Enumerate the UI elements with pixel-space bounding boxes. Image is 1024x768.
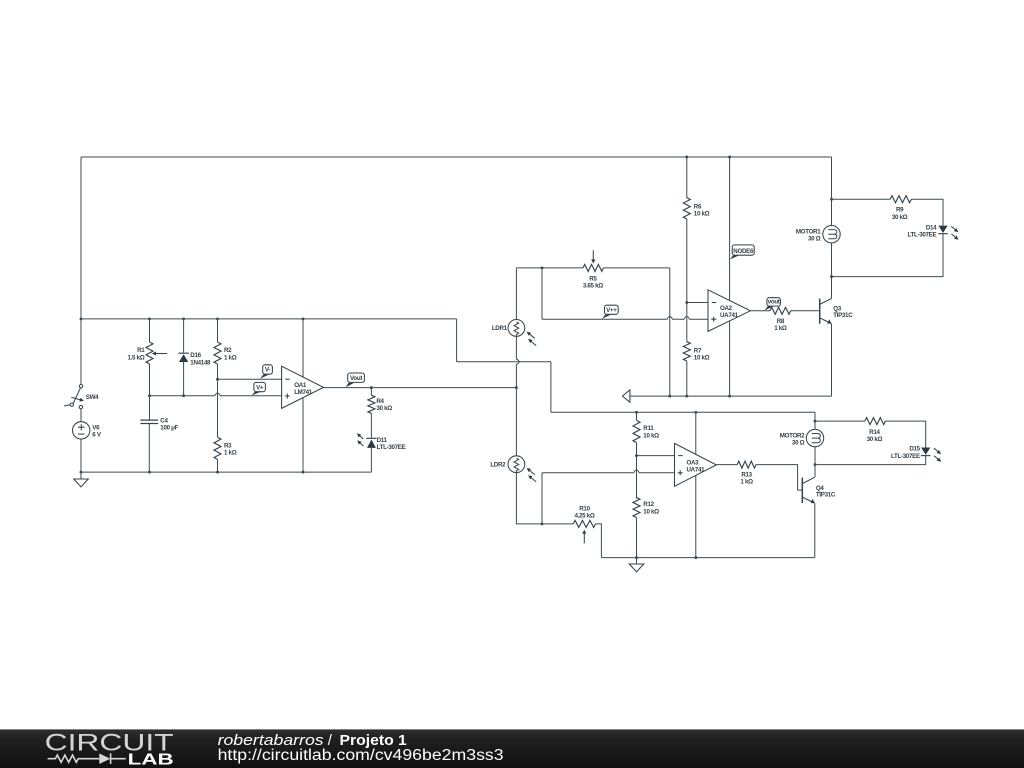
svg-text:OA3: OA3 <box>687 459 700 466</box>
wire left rail upper (loop to bus) <box>80 157 82 319</box>
wire R12 top lead <box>636 456 638 499</box>
node junction D16/plus-wire <box>182 394 185 397</box>
wire R11 top lead <box>636 412 638 420</box>
wire top supply loop <box>81 156 832 158</box>
resistor R7 10k <box>683 342 690 361</box>
svg-text:R4: R4 <box>376 398 384 405</box>
svg-text:1 kΩ: 1 kΩ <box>224 354 237 361</box>
svg-text:http://circuitlab.com/cv496be2: http://circuitlab.com/cv496be2m3ss3 <box>218 747 504 764</box>
wire R1 bottom lead <box>149 364 151 396</box>
wire R5 right lead <box>604 267 670 269</box>
node junction MOTOR2/R14 <box>814 420 817 423</box>
wire MOTOR1 to Q3 collector <box>831 277 833 299</box>
resistor R14 30k <box>865 418 886 425</box>
svg-text:OA1: OA1 <box>294 382 307 389</box>
resistor R3 1k <box>214 437 221 459</box>
node junction R2 top <box>216 317 219 320</box>
wire R5 right drop <box>669 268 671 396</box>
wire MOTOR2 upper lead <box>814 421 816 429</box>
label Vout callout <box>346 383 354 388</box>
op-amp OA2 UA741 <box>708 290 750 332</box>
label vout callout <box>764 306 773 310</box>
node junction R3/bottom rail <box>216 471 219 474</box>
wire R2 top lead <box>217 319 219 342</box>
wire OA3 plus input (hops R12 wire) <box>542 470 675 473</box>
wire D14 bottom lead <box>832 234 944 277</box>
svg-text:30 Ω: 30 Ω <box>808 236 821 243</box>
node junction R1/plus-wire <box>148 394 151 397</box>
svg-text:LTL-307EE: LTL-307EE <box>377 444 406 451</box>
wire R3 bottom lead <box>217 459 219 472</box>
wire R2 bottom lead <box>217 364 219 379</box>
node junction MOTOR1/D14 <box>830 275 833 278</box>
svg-text:R12: R12 <box>643 501 654 508</box>
wire OA3 minus input <box>637 455 675 457</box>
node junction R11 top <box>635 411 638 414</box>
node junction OA3 V+ pin <box>694 411 697 414</box>
wire OA2 minus input <box>687 302 708 304</box>
svg-text:NODE6: NODE6 <box>733 248 754 255</box>
wire to LDR1 crossing <box>457 361 551 363</box>
svg-text:R3: R3 <box>224 442 232 449</box>
footer bar <box>0 729 1024 768</box>
node junction OA1 V+ pin <box>302 317 305 320</box>
svg-text:LDR2: LDR2 <box>490 462 506 469</box>
svg-text:D15: D15 <box>909 446 920 453</box>
svg-text:1 kΩ: 1 kΩ <box>774 325 787 332</box>
LED D11 LTL-307EE <box>366 437 376 439</box>
wire loop to MOTOR1 <box>831 199 833 225</box>
wire OA1 minus input <box>218 378 282 380</box>
node junction NODE6 top <box>728 156 731 159</box>
wire left rail to switch <box>80 319 82 384</box>
wire R7 top lead <box>686 303 688 342</box>
node junction OA1 V- pin <box>302 471 305 474</box>
node junction R5-left tap <box>541 266 544 269</box>
transistor Q3 TIP31C <box>819 299 821 324</box>
wire R4 to D11 <box>370 413 372 438</box>
svg-text:10 kΩ: 10 kΩ <box>694 211 710 218</box>
resistor R2 1k <box>214 342 221 364</box>
label V++ callout <box>602 315 611 319</box>
wire Q4 emitter drop <box>814 503 816 557</box>
potentiometer R10 4.25k <box>573 520 595 527</box>
node junction R2/minus-wire <box>216 378 219 381</box>
svg-text:V+: V+ <box>256 384 264 391</box>
wire LDR1 top lead <box>515 268 517 322</box>
logo resistor-diode glyph <box>48 755 100 762</box>
node junction OA3 minus node <box>635 454 638 457</box>
capacitor C4 100uF <box>140 419 158 421</box>
wire mid return rail <box>630 395 832 397</box>
port arrow mid rail <box>622 390 630 402</box>
svg-text:V++: V++ <box>606 307 617 314</box>
svg-text:UA741: UA741 <box>687 467 706 474</box>
svg-text:MOTOR1: MOTOR1 <box>796 228 821 235</box>
svg-text:Vout: Vout <box>350 375 362 382</box>
svg-text:1 kΩ: 1 kΩ <box>224 450 237 457</box>
node junction OA2 minus node <box>685 301 688 304</box>
wire R6 top lead <box>686 157 688 198</box>
svg-text:LTL-307EE: LTL-307EE <box>907 232 936 239</box>
wire R13 to Q4 base <box>756 465 802 491</box>
label V- callout <box>260 374 269 378</box>
photoresistor LDR2 <box>508 456 525 473</box>
wire lower bottom rail <box>601 557 814 559</box>
node junction C4/bottom rail <box>148 471 151 474</box>
svg-text:10 kΩ: 10 kΩ <box>694 355 710 362</box>
wire R9 to D14 <box>911 199 943 225</box>
svg-text:MOTOR2: MOTOR2 <box>780 432 805 439</box>
wire R9 left lead <box>832 198 891 200</box>
svg-text:LDR1: LDR1 <box>492 325 508 332</box>
resistor R13 1k <box>737 461 756 468</box>
resistor R1 (pot 1.5 k) <box>146 342 153 364</box>
switch SW4 <box>73 388 80 404</box>
wire main bus <box>81 318 457 320</box>
svg-text:30 kΩ: 30 kΩ <box>892 214 908 221</box>
wire drop x550.9 <box>550 362 552 413</box>
wire R4 top lead <box>370 388 372 396</box>
svg-text:vout: vout <box>768 299 780 306</box>
wire MOTOR2 to junction <box>814 447 816 465</box>
wire R14 to D15 <box>885 421 925 447</box>
svg-text:TIP31C: TIP31C <box>833 312 853 319</box>
svg-text:OA2: OA2 <box>720 305 733 312</box>
ground lower <box>636 558 638 564</box>
wire OA2 output <box>750 310 770 312</box>
voltage source V6 <box>73 422 90 439</box>
wire NODE6 rail (OA2 power) <box>729 157 731 396</box>
svg-text:V-: V- <box>265 367 270 374</box>
svg-text:D14: D14 <box>926 224 937 231</box>
op-amp OA3 UA741 <box>675 443 717 486</box>
svg-text:30 Ω: 30 Ω <box>792 439 805 446</box>
wire R14 left lead <box>815 420 865 422</box>
svg-text:6 V: 6 V <box>92 431 102 438</box>
wire LDR1 to LDR2 <box>515 388 517 459</box>
resistor R12 10k <box>633 498 640 518</box>
wire LDR2 bottom lead <box>516 470 573 524</box>
svg-text:30 kΩ: 30 kΩ <box>867 436 883 443</box>
potentiometer R5 3.65k <box>583 264 604 271</box>
transistor Q4 TIP31C <box>801 478 803 504</box>
wire R10 to bottom rail <box>596 524 602 558</box>
svg-text:R10: R10 <box>579 505 590 512</box>
svg-text:LAB: LAB <box>128 751 174 768</box>
wire D11 bottom lead <box>370 448 372 472</box>
label V+ callout <box>252 392 261 395</box>
svg-text:R14: R14 <box>869 429 880 436</box>
node junction bottom-left <box>80 471 83 474</box>
wire R12 bottom lead <box>636 518 638 558</box>
svg-text:R2: R2 <box>224 347 232 354</box>
wire OA1 output <box>324 387 517 389</box>
svg-text:30 kΩ: 30 kΩ <box>376 405 392 412</box>
diode D16 1N4148 <box>178 352 189 354</box>
svg-text:D16: D16 <box>190 352 201 359</box>
wire OA3 output <box>716 464 737 466</box>
wire top-right drop to R9 tap <box>831 157 833 199</box>
svg-text:R7: R7 <box>694 347 702 354</box>
node junction D16 top <box>182 317 185 320</box>
op-amp OA1 LM741 <box>282 366 324 408</box>
wire D16 top lead <box>183 319 185 353</box>
svg-text:SW4: SW4 <box>86 394 99 401</box>
resistor R4 30k <box>368 395 375 413</box>
svg-text:R6: R6 <box>694 203 702 210</box>
wire R5 tap to OA2 plus <box>541 268 543 319</box>
svg-text:R13: R13 <box>741 471 752 478</box>
wire MOTOR2 to Q4 collector <box>814 465 816 477</box>
node junction OA3 V- pin <box>694 556 697 559</box>
resistor R11 10k <box>633 420 640 442</box>
motor MOTOR1 30 <box>823 226 840 243</box>
node junction R7/mid rail <box>685 395 688 398</box>
node junction R5drop/mid rail <box>668 395 671 398</box>
wire LDR1 bottom lead (hops cross wire) <box>516 334 519 387</box>
resistor R6 10k <box>683 198 690 219</box>
node junction ground2/R12 <box>635 556 638 559</box>
wire lower-section top rail <box>551 411 815 413</box>
wire bottom rail left section <box>81 471 371 473</box>
ground left <box>80 472 82 479</box>
svg-text:C4: C4 <box>160 417 168 424</box>
wire R6 bottom lead <box>686 219 688 303</box>
wire MOTOR2 top feed <box>814 412 816 421</box>
wire C4 bottom lead <box>148 424 150 473</box>
wire OA2 plus input (hops two wires) <box>542 316 708 319</box>
wire D15 bottom lead <box>815 456 926 465</box>
wire R11 bottom lead <box>636 443 638 456</box>
svg-text:R11: R11 <box>643 425 654 432</box>
svg-text:D11: D11 <box>377 437 388 444</box>
svg-text:LM741: LM741 <box>294 389 313 396</box>
svg-text:1 kΩ: 1 kΩ <box>740 478 753 485</box>
wire D16 bottom lead <box>183 362 185 396</box>
resistor R8 1k <box>770 307 791 314</box>
node junction R10 tap <box>541 522 544 525</box>
LED D14 LTL-307EE <box>938 226 947 233</box>
wire R2-R3 vertical <box>217 379 219 437</box>
wire OA1 plus input (hops R2 wire) <box>150 393 282 396</box>
node junction R6 top <box>685 156 688 159</box>
svg-text:4.25 kΩ: 4.25 kΩ <box>574 512 594 519</box>
svg-text:1.5 kΩ: 1.5 kΩ <box>127 354 144 361</box>
wire OA3-plus drop <box>541 473 543 524</box>
resistor R9 30k <box>890 196 911 203</box>
wire switch to source <box>80 409 82 422</box>
wire OA3 power rail <box>695 412 697 557</box>
svg-text:1N4148: 1N4148 <box>190 359 211 366</box>
node junction LDR1/Vout <box>515 386 518 389</box>
node junction left-rail/bus <box>80 317 83 320</box>
svg-text:R8: R8 <box>777 318 785 325</box>
node junction R9 tap <box>830 198 833 201</box>
svg-text:UA741: UA741 <box>720 312 739 319</box>
svg-text:TIP31C: TIP31C <box>816 491 836 498</box>
node junction NODE6/mid rail <box>728 395 731 398</box>
wire OA1 power rail <box>302 319 304 472</box>
svg-text:3.65 kΩ: 3.65 kΩ <box>583 282 603 289</box>
LED D15 LTL-307EE <box>921 448 930 455</box>
wire C4 top lead <box>149 396 151 420</box>
wire R7 bottom lead <box>686 361 688 396</box>
svg-text:R9: R9 <box>896 207 904 214</box>
svg-text:10 kΩ: 10 kΩ <box>643 432 659 439</box>
svg-text:10 kΩ: 10 kΩ <box>643 508 659 515</box>
node junction R1 top <box>148 317 151 320</box>
wire R1 top lead <box>149 319 151 342</box>
wire R8 to Q3 base <box>791 310 819 312</box>
svg-text:LTL-307EE: LTL-307EE <box>891 453 920 460</box>
wire R5 top branch <box>516 267 583 269</box>
wire Q3 emitter drop <box>831 324 833 396</box>
node junction MOTOR2/D15 <box>814 463 817 466</box>
wire source to ground rail <box>80 439 82 472</box>
wire bus drop x456.6 <box>456 319 458 362</box>
wire MOTOR1 to junction <box>831 243 833 277</box>
label NODE6 callout <box>730 256 739 260</box>
motor MOTOR2 30 <box>806 429 823 446</box>
svg-text:100 μF: 100 μF <box>160 425 178 432</box>
svg-text:R5: R5 <box>589 275 597 282</box>
node junction R4 top <box>370 386 373 389</box>
svg-text:R1: R1 <box>137 347 145 354</box>
photoresistor LDR1 <box>508 320 525 337</box>
